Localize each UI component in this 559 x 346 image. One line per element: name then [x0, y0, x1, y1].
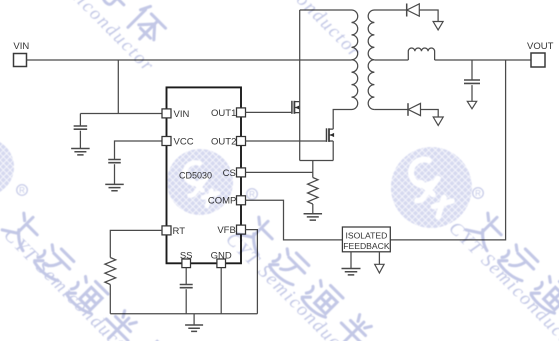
feedback block U2 ISOLATED FEEDBACK	[342, 227, 390, 252]
wire OUT1	[246, 111, 292, 113]
wire feedback sense	[390, 60, 505, 240]
wire SS	[185, 268, 187, 285]
wire VCC	[115, 141, 163, 160]
svg-text:VIN: VIN	[174, 109, 190, 120]
resistor RT	[105, 258, 116, 314]
ground CS	[304, 214, 323, 220]
pin VFB	[217, 225, 245, 236]
capacitor C2	[108, 160, 121, 185]
wire COMP	[246, 200, 343, 240]
pin SS	[180, 251, 193, 268]
wire OUT2	[246, 140, 326, 142]
IC U1 CD5030	[167, 87, 242, 263]
pin OUT1	[211, 108, 245, 119]
ground C1	[71, 149, 90, 155]
wire Q2 drain	[333, 110, 351, 130]
terminal VIN	[13, 41, 29, 67]
diode D1	[407, 4, 438, 22]
wire RT	[110, 230, 162, 257]
svg-text:VIN: VIN	[13, 41, 29, 52]
transistor Q2	[327, 128, 335, 142]
ground main	[185, 314, 203, 332]
wire source rail	[300, 141, 334, 161]
wire CS	[246, 161, 313, 178]
pin GND	[211, 251, 232, 268]
svg-text:OUT2: OUT2	[211, 136, 236, 147]
svg-text:VOUT: VOUT	[527, 41, 554, 52]
inductor L1	[408, 48, 434, 60]
resistor R CS	[308, 178, 318, 214]
pin RT	[162, 226, 185, 237]
transistor Q1	[292, 101, 300, 114]
transformer T1 primary	[300, 10, 358, 110]
wire VFB return	[246, 230, 258, 314]
wire VOUT rail	[435, 59, 531, 61]
svg-text:FEEDBACK: FEEDBACK	[343, 241, 390, 251]
pin CS	[223, 168, 246, 179]
capacitor C1	[74, 114, 88, 149]
ground D1 (signal)	[433, 22, 443, 30]
pin VIN	[162, 109, 189, 120]
svg-text:VCC: VCC	[174, 136, 194, 147]
terminal VOUT	[527, 41, 554, 67]
capacitor C3	[464, 60, 480, 101]
wire Q1 drain/source vertical	[299, 10, 301, 161]
svg-text:OUT1: OUT1	[211, 108, 236, 119]
ground U2 earth	[342, 252, 361, 275]
wire GND stem	[220, 268, 222, 314]
wire ground rail	[110, 313, 257, 315]
wire VIN drop to IC	[80, 60, 162, 114]
svg-text:CYT Semiconductor: CYT Semiconductor	[14, 0, 158, 77]
ground D2 (signal)	[433, 117, 443, 125]
ground C3 (signal)	[467, 101, 476, 109]
svg-text:ISOLATED: ISOLATED	[345, 231, 387, 241]
pin VCC	[162, 136, 194, 147]
diode D2	[408, 103, 438, 117]
svg-text:RT: RT	[173, 226, 186, 237]
capacitor SS	[180, 285, 193, 314]
wire VIN rail	[27, 59, 352, 61]
ground U2 signal	[375, 252, 384, 273]
ground C2	[105, 184, 124, 190]
pin OUT2	[211, 136, 245, 147]
pin COMP	[208, 196, 246, 207]
transformer T1 secondary	[368, 10, 408, 110]
